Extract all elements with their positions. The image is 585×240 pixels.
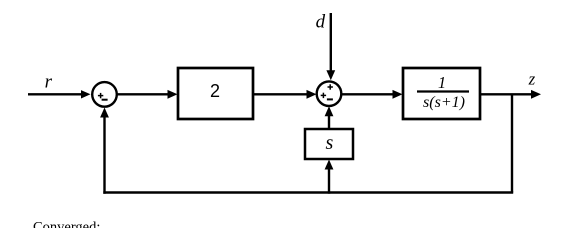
node d (disturbance label) [316, 12, 326, 33]
block G1 plant 1/s(s+1) [403, 68, 480, 119]
caption Converged (cut off at bottom edge) [33, 220, 100, 236]
svg-text:Converged:: Converged: [33, 220, 100, 229]
sign - on S2 (bottom input) [327, 98, 333, 100]
wire feedback riser up into S1 [100, 108, 109, 194]
value label 2 [210, 81, 220, 101]
summing junction S1 [92, 82, 117, 107]
wire bottom feedback run [103, 191, 513, 193]
svg-text:r: r [45, 72, 53, 93]
svg-text:2: 2 [210, 81, 220, 101]
value label s [326, 132, 334, 154]
wire r input to summing junction S1 [28, 90, 91, 98]
block K1 gain 2 [178, 68, 253, 119]
sign + on S2 (top disturbance input) [328, 84, 333, 89]
wire d input down into S2 [326, 13, 335, 80]
svg-text:1: 1 [438, 73, 446, 92]
sign + on S1 (left input) [98, 93, 103, 98]
node z (output label) [528, 70, 536, 89]
block H1 derivative s [305, 129, 353, 159]
svg-text:z: z [528, 70, 536, 89]
sign - on S1 (bottom feedback input) [102, 99, 108, 101]
sign + on S2 (left input) [321, 93, 326, 98]
wire s block up into S2 [325, 106, 334, 129]
svg-text:d: d [316, 12, 326, 33]
wire gain block to summing junction S2 [253, 90, 317, 99]
fraction bar of plant transfer function [417, 90, 469, 92]
summing junction S2 [317, 81, 342, 106]
node r (input label) [45, 72, 53, 93]
svg-text:s(s+1): s(s+1) [423, 94, 465, 111]
wire S2 to plant block [342, 90, 403, 99]
wire takeoff from output down [511, 94, 513, 192]
wire plant output to z [480, 90, 541, 99]
wire S1 to gain block [117, 90, 178, 99]
denominator s(s+1) [423, 94, 465, 111]
numerator 1 [438, 73, 446, 92]
wire branch riser from feedback up into s block [325, 160, 334, 194]
svg-text:s: s [326, 132, 334, 154]
